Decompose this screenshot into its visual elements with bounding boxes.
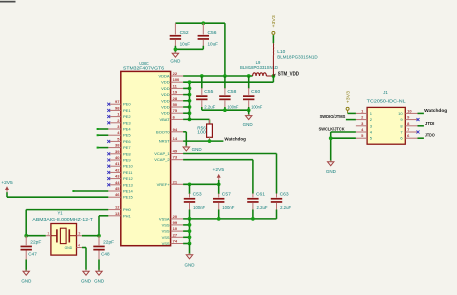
sheet border fragment (top-left) [0,1,16,3]
svg-text:PE1: PE1 [123,108,131,113]
J1 pin 9 [400,115,417,123]
svg-text:10uF: 10uF [208,41,219,46]
wire C57 top lead [218,184,220,194]
svg-text:Watchdog: Watchdog [224,136,246,141]
svg-text:94: 94 [173,127,178,132]
C47 value 22pF [30,239,42,244]
svg-text:98: 98 [115,105,120,110]
svg-text:VCAP_2: VCAP_2 [154,157,170,162]
svg-text:44: 44 [115,180,120,185]
svg-text:42: 42 [115,167,120,172]
svg-text:45: 45 [115,186,120,191]
svg-text:10: 10 [173,226,178,231]
C55 reference [204,89,214,94]
U38C pin 45 (PE14) [108,186,133,194]
svg-text:C61: C61 [256,192,266,197]
U38C pin 73 (VCAP_2) [154,155,183,163]
C61 value 2.2uF [257,205,268,210]
svg-text:100nF: 100nF [251,105,262,110]
capacitor C56 10uF [198,23,209,46]
svg-text:GND: GND [65,246,73,250]
wire J1 pin6 JTDO [418,137,424,139]
svg-text:100: 100 [197,130,206,135]
node VSS rail y=224.9 [188,223,192,227]
wire VSS row y=237.3 [183,236,189,238]
wire C53 bottom lead [189,210,191,219]
node STM_VDD junction [272,74,276,78]
wire VCAP_1 to C63 [183,154,276,194]
wire C56 rail down to VDDA rail [224,23,226,76]
ground under C48 [96,270,102,276]
no-connect X on PE0 [107,103,110,106]
svg-text:J1: J1 [383,90,388,95]
svg-text:PE13: PE13 [123,182,134,187]
svg-text:VDD: VDD [161,111,170,116]
no-connect X on PE2 [107,115,110,118]
wire VBAT to R56 [183,119,209,124]
node VDD bus at y=88.4 [188,87,192,91]
node C57 bottom [217,217,221,221]
wire VCAP_2 to C61 [183,160,253,194]
svg-text:75: 75 [173,108,178,113]
no-connect X on PE13 [107,183,110,186]
wire PH1 to crystal [99,216,108,236]
svg-text:PE14: PE14 [123,189,134,194]
wire C60 top lead [248,76,250,89]
svg-text:10: 10 [407,108,412,113]
svg-text:C55: C55 [204,89,214,94]
wire C58 top lead [224,76,226,89]
svg-text:GND: GND [185,262,195,267]
svg-text:JTDO: JTDO [425,133,435,138]
J1 reference [383,90,388,95]
svg-text:22pF: 22pF [30,239,42,244]
no-connect X on PE10 [107,165,110,168]
C58 value 100nF [227,105,238,110]
svg-text:C63: C63 [280,192,290,197]
svg-text:C52: C52 [180,30,190,35]
svg-text:41: 41 [115,161,120,166]
svg-text:VREF+: VREF+ [157,182,171,187]
no-connect X on J1 pin9 [417,118,420,121]
svg-text:2.2uF: 2.2uF [257,205,268,210]
J1 pin 4 [356,127,373,135]
node VDD bus at y=100.8 [188,99,192,103]
wire crystal pin4 to ground [82,248,86,270]
svg-text:100: 100 [173,77,180,82]
svg-text:PH0: PH0 [123,207,132,212]
wire C61 bottom lead [252,210,254,219]
GND text under U38C [185,262,195,267]
svg-text:VBAT: VBAT [159,117,170,122]
U38C pin 20 (VSSA) [159,214,183,222]
wire top rail C52-C56 [175,22,225,24]
wire C63 bottom lead [276,210,278,219]
wire VDD pin row y=94.6 [183,94,189,96]
U38C pin 3 (PE4) [108,124,131,132]
wire C57 bottom lead [218,210,220,219]
L10 value BLM18PG331SN1D [277,54,317,59]
C60 value 100nF [251,105,262,110]
svg-text:2.2uF: 2.2uF [204,105,215,110]
svg-text:22pF: 22pF [103,239,115,244]
svg-text:GND: GND [21,278,31,283]
svg-text:99: 99 [173,220,178,225]
svg-text:100nF: 100nF [227,105,238,110]
L9 reference [256,60,261,65]
wire VDD bus vertical [189,82,191,119]
svg-text:Watchdog: Watchdog [424,108,447,113]
C52 value 10uF [180,41,191,46]
U38C pin 99 (VSS) [162,220,184,228]
power symbol +3V3 above L10 [271,14,276,34]
node VSS rail y=237.3 [188,235,192,239]
svg-text:BLM18PG331SN1D: BLM18PG331SN1D [240,65,278,70]
net label SWDIO/JTMS [320,114,346,119]
wire +3V3 to J1 pin1 [348,112,356,114]
GND text under C48 [94,278,104,283]
U38C pin 11 (VDD) [161,83,183,91]
node C52 bottom junction [174,47,178,51]
node VDD bus at y=113.2 [188,111,192,115]
GND text under C47 [21,278,31,283]
wire decoupling bottom rail [202,107,249,110]
capacitor C53 100nF [184,194,195,211]
svg-text:VSS: VSS [162,229,170,234]
U38C pin 21 (VREF+) [157,179,184,187]
no-connect X on PE12 [107,177,110,180]
U38C pin 39 (PE8) [108,149,131,157]
svg-text:13: 13 [115,211,120,216]
U38C pin 13 (PH1) [108,211,131,219]
C57 reference [222,192,232,197]
U38C pin 42 (PE11) [108,167,133,175]
U38C pin 98 (PE1) [108,105,131,113]
node R56 bottom [208,139,212,143]
svg-text:PE3: PE3 [123,120,131,125]
svg-text:PE8: PE8 [123,151,131,156]
U38C pin 12 (PH0) [108,205,131,213]
svg-text:100nF: 100nF [222,205,234,210]
U38C pin 94 (BOOT0) [156,127,183,135]
C63 value 2.2uF [280,205,291,210]
wire VSS rail to ground [189,244,191,255]
node crystal left junction [24,234,28,238]
svg-text:ABM3AIG-8.000MHZ-12-T: ABM3AIG-8.000MHZ-12-T [32,217,93,222]
J1 pin 1 [356,108,373,116]
svg-text:PE15: PE15 [123,195,134,200]
capacitor C63 2.2uF [271,194,282,211]
net label JTDI [425,121,435,126]
svg-text:JTDI: JTDI [425,121,435,126]
svg-text:10: 10 [398,111,403,116]
U38C reference designator [139,61,149,66]
svg-text:46: 46 [115,192,120,197]
R56 value 100 [197,130,206,135]
svg-text:SWDIO/JTMS: SWDIO/JTMS [320,114,346,119]
U38C pin 74 (VSS) [162,239,184,247]
svg-text:+3V3: +3V3 [271,14,276,27]
svg-text:VDDA: VDDA [158,74,169,79]
U38C pin 5 (PE6) [108,136,131,144]
svg-text:SWCLK/JTCK: SWCLK/JTCK [319,126,346,131]
no-connect X on PE3 [107,121,110,124]
svg-text:VCAP_1: VCAP_1 [154,151,170,156]
svg-text:39: 39 [115,149,120,154]
wire +2V5 to PE15 [7,192,108,197]
node C58 bottom [223,108,227,112]
node C56 top [201,21,205,25]
svg-text:+2V5: +2V5 [1,180,13,185]
GND text under decoupling rail [243,122,253,127]
net label SWCLK/JTCK [319,126,346,131]
svg-text:38: 38 [115,143,120,148]
svg-text:14: 14 [173,136,178,141]
Y1 value ABM3AIG-8.000MHZ-12-T [32,217,93,222]
GND text under crystal pin4 [81,278,91,283]
node C55 top [200,74,204,78]
crystal Y1 ABM3AIG-8.000MHZ-12-T [46,224,82,256]
node C58 top [223,74,227,78]
svg-text:21: 21 [173,179,178,184]
J1 pin 10 [398,108,417,116]
svg-text:VDD: VDD [161,92,170,97]
wire NRST / watchdog [183,140,223,142]
U38C pin 27 (VSS) [162,232,184,240]
svg-text:GND: GND [81,278,91,283]
svg-text:VSSA: VSSA [159,216,170,221]
J1 pin 2 [356,115,373,123]
svg-text:GND: GND [192,147,202,152]
U38C pin 41 (PE10) [108,161,133,169]
svg-text:10uF: 10uF [180,41,191,46]
U38C pin 40 (PE9) [108,155,131,163]
wire C48 to ground [98,260,100,272]
svg-text:BOOT0: BOOT0 [156,129,170,134]
U38C pin 28 (VDD) [161,96,183,104]
ground under crystal pin4 [83,270,89,276]
svg-text:C56: C56 [208,30,218,35]
wire stub PE14 [72,190,108,192]
capacitor C60 100nF [243,88,254,108]
svg-text:STM_VDD: STM_VDD [278,72,300,78]
node VSS rail y=231.1 [188,229,192,233]
no-connect X on PE1 [107,109,110,112]
GND text under J1 [326,169,336,174]
wire J1 pin8 JTDI [418,125,424,127]
U38C pin 19 (VDD) [161,90,183,98]
inductor L10 BLM18PG331SN1D [272,35,274,76]
J1 pin 5 [356,133,373,141]
svg-text:12: 12 [115,205,120,210]
U38C pin 43 (PE12) [108,174,133,182]
capacitor C47 22pF [21,236,32,260]
C57 value 100nF [222,205,234,210]
svg-text:19: 19 [173,90,178,95]
C47 reference [28,251,37,256]
U38C pin 50 (VDD) [161,102,183,110]
U38C pin 22 (VDDA) [158,71,183,79]
wire C56 bottom to C52 bottom [175,46,203,53]
J1 value TC2050-IDC-NL [367,98,407,103]
svg-text:VSS: VSS [162,235,170,240]
U38C pin 46 (PE15) [108,192,133,200]
C48 reference [101,251,110,256]
svg-text:GND: GND [326,169,336,174]
C53 value 100nF [193,205,205,210]
wire J1 pin2 SWDIO [346,119,356,121]
C58 reference [227,89,237,94]
U38C pin 97 (PE0) [108,99,131,107]
svg-text:C53: C53 [193,192,203,197]
node C61 bottom [251,217,255,221]
svg-text:VDD: VDD [161,98,170,103]
svg-text:28: 28 [173,96,178,101]
no-connect X on PE9 [107,159,110,162]
wire VDD pin row y=107.0 [183,106,189,108]
net label STM_VDD [273,72,299,78]
J1 pin 7 [400,127,417,135]
wire STM_VDD to VDD rail [183,76,273,82]
svg-text:3: 3 [78,231,80,235]
wire BOOT0 to ground [183,132,186,147]
svg-text:VDD: VDD [161,105,170,110]
C52 reference [180,30,190,35]
U38C pin 38 (PE7) [108,143,131,151]
svg-text:VSS: VSS [162,241,170,246]
no-connect X on PE6 [107,140,110,143]
node C53 top [188,182,192,186]
node VDD bus at y=119.4 [188,118,192,122]
node VSS rail y=243.5 [188,242,192,246]
node C60 top [247,74,251,78]
wire crystal left [26,235,46,237]
svg-text:C58: C58 [227,89,237,94]
C56 value 10uF [208,41,219,46]
power symbol +3V3 at J1 pin1 [345,90,350,113]
J1 pin 3 [356,121,373,129]
wire C47 to ground [25,260,27,272]
svg-text:40: 40 [115,155,120,160]
svg-text:GND: GND [243,122,253,127]
U38C pin 75 (VDD) [161,108,183,116]
wire VDD pin row y=100.8 [183,100,189,102]
power flag +2V5 (center) [213,167,225,184]
C53 reference [193,192,203,197]
node VDD bus at y=94.6 [188,93,192,97]
svg-text:73: 73 [173,155,178,160]
svg-text:GND: GND [94,278,104,283]
U38C pin 6 (VBAT) [159,114,183,122]
svg-text:1: 1 [47,231,49,235]
svg-text:Y1: Y1 [57,211,63,216]
L10 reference [277,49,286,54]
L9 value BLM18PG331SN1D [240,65,278,70]
C48 value 22pF [103,239,115,244]
ground under U38C [186,253,192,259]
net label Watchdog [224,136,246,141]
wire VDDA rail [183,75,253,77]
net label Watchdog at J1 [424,108,447,113]
ground under decoupling rail [246,110,252,119]
C61 reference [256,192,266,197]
node crystal right junction [97,234,101,238]
svg-text:97: 97 [115,99,120,104]
svg-text:PE0: PE0 [123,102,131,107]
wire J1 pin10 Watchdog [418,112,424,114]
Y1 reference [57,211,63,216]
svg-text:STM32F407VGT6: STM32F407VGT6 [123,65,165,70]
C63 reference [280,192,290,197]
U38C pin 44 (PE13) [108,180,133,188]
svg-text:2.2uF: 2.2uF [280,205,291,210]
no-connect X on PE11 [107,171,110,174]
capacitor C61 2.2uF [247,194,258,211]
power flag +2V5 (left) [1,180,13,193]
capacitor C52 10uF [170,23,181,46]
GND text at BOOT0 [192,147,202,152]
capacitor C48 22pF [93,236,104,260]
wire C53 top lead [189,184,191,194]
node J1 ground junction [329,136,333,140]
svg-text:100nF: 100nF [193,205,205,210]
U38C pin 100 (VDD) [161,77,183,85]
svg-text:PE4: PE4 [123,127,131,132]
capacitor C57 100nF [213,194,224,211]
svg-text:22: 22 [173,71,178,76]
wire J1 pin5 to ground [331,132,356,161]
wire stub PE4 [97,128,109,130]
no-connect X on PE8 [107,152,110,155]
ground at BOOT0 [183,145,189,151]
svg-text:4: 4 [78,243,80,247]
IC U38C STM32F407VGT6 body [121,71,171,245]
svg-text:C48: C48 [101,251,110,256]
U38C pin 49 (VCAP_1) [154,149,183,157]
svg-text:74: 74 [173,239,178,244]
svg-text:50: 50 [173,102,178,107]
svg-text:BLM18PG331SN1D: BLM18PG331SN1D [277,54,317,59]
svg-text:C47: C47 [28,251,37,256]
U38C pin 10 (VSS) [162,226,184,234]
J1 pin 8 [400,121,417,129]
svg-text:PE9: PE9 [123,158,131,163]
svg-text:VDD: VDD [161,80,170,85]
net label JTDO [425,133,435,138]
C60 reference [251,89,261,94]
C56 reference [208,30,218,35]
U38C pin 4 (PE5) [108,130,131,138]
node VDD bus at y=107.0 [188,105,192,109]
C55 value 2.2uF [204,105,215,110]
GND text under C52 [170,59,180,64]
no-connect X on J1 pin7 [417,131,420,134]
svg-text:GND: GND [170,59,180,64]
ground under J1 [328,160,334,166]
svg-text:+3V3: +3V3 [345,90,350,103]
J1 pin 6 [400,133,417,141]
wire PH0 to crystal [26,210,108,236]
svg-text:TC2050-IDC-NL: TC2050-IDC-NL [367,98,407,103]
wire VSS row y=243.5 [183,243,189,245]
svg-text:+2V5: +2V5 [213,167,225,172]
wire J1 pin4 SWCLK [331,131,356,133]
wire VSS vertical rail [189,219,191,244]
svg-text:PE5: PE5 [123,133,131,138]
capacitor C58 100nF [219,88,230,108]
svg-text:43: 43 [115,174,120,179]
node C57 top [217,182,221,186]
